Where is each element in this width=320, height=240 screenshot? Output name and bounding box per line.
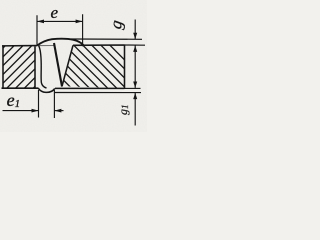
- cap-top extension line (for g): [71, 38, 142, 40]
- right plate hatching: [19, 45, 153, 89]
- shared middle segment with up/down arrows: [134, 46, 136, 88]
- left fusion line (curved weld boundary): [39, 46, 47, 89]
- dimension e: dimension line with outward arrows: [37, 20, 83, 22]
- root-bottom extension line (for g1): [55, 92, 141, 94]
- weld cap bead (top reinforcement): [37, 39, 83, 46]
- svg-text:e: e: [51, 3, 59, 22]
- left plate outline: [2, 46, 39, 89]
- plate-bottom extension to right: [125, 87, 141, 89]
- right plate outline (top surface, bevel edge, right edge, bottom): [55, 45, 125, 88]
- original surface line across groove: [38, 45, 54, 47]
- dimension e1: dimension line, arrows outside pointing inward: [3, 110, 39, 112]
- right fusion line (thick diagonal): [54, 43, 62, 87]
- dimension e1: extension lines below root: [39, 90, 55, 118]
- plate-top extension to right: [125, 44, 146, 46]
- left plate hatching: [0, 46, 76, 89]
- dimension g1: vertical line below with up arrow: [134, 93, 136, 126]
- dimension g: vertical line above with down arrow: [134, 20, 136, 40]
- dimension e: extension lines: [37, 14, 83, 46]
- root bead (bottom reinforcement): [38, 88, 55, 92]
